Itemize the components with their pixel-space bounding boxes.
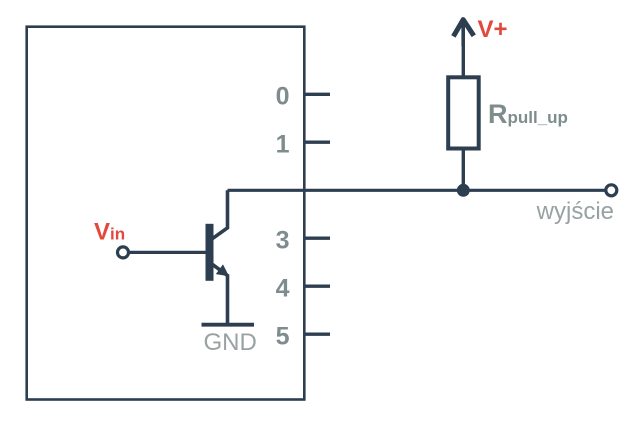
ground bar	[202, 323, 255, 327]
output terminal (wyjście)	[606, 185, 617, 196]
pin 5 stub	[304, 333, 330, 336]
svg-text:Vin: Vin	[94, 219, 125, 246]
svg-text:GND: GND	[204, 329, 257, 356]
V+ arrow shaft	[461, 21, 465, 46]
wire: Vin to transistor base	[129, 251, 206, 254]
resistor R_pull_up body	[448, 77, 479, 148]
transistor Q1 emitter	[213, 264, 228, 325]
svg-text:3: 3	[276, 227, 290, 255]
wire: resistor top lead to V+	[462, 44, 465, 78]
pin 3 stub	[304, 236, 330, 239]
svg-text:5: 5	[276, 323, 290, 351]
svg-text:wyjście: wyjście	[536, 198, 614, 225]
input terminal (Vin)	[118, 247, 129, 258]
wire: output net (pin 2) from collector to output terminal	[228, 189, 605, 192]
svg-text:1: 1	[276, 131, 290, 159]
transistor Q1 collector	[213, 190, 228, 238]
svg-text:4: 4	[276, 275, 290, 303]
transistor Q1 emitter arrowhead	[216, 264, 229, 276]
transistor Q1 base bar	[206, 224, 214, 281]
pin 4 stub	[304, 285, 330, 288]
pin 0 stub	[304, 93, 330, 96]
wire: resistor bottom lead to output net	[462, 148, 465, 190]
V+ arrowhead	[453, 20, 473, 37]
node: junction of R_pull_up and output net	[457, 184, 470, 197]
svg-text:Rpull_up: Rpull_up	[488, 99, 568, 129]
IC box (open-collector device outline)	[27, 27, 305, 400]
svg-text:0: 0	[276, 83, 290, 111]
svg-text:V+: V+	[478, 16, 508, 43]
pin 1 stub	[304, 140, 330, 143]
